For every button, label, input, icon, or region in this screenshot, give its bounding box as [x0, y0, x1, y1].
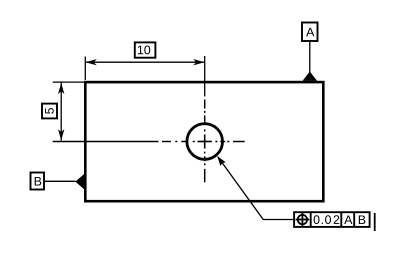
position symbol [296, 213, 310, 226]
dimension line 5 [60, 83, 62, 141]
datum A label frame [302, 23, 318, 42]
value 10 [138, 46, 150, 55]
datum A letter [306, 28, 314, 37]
extension line from hole center left for dimension 5 [53, 141, 159, 143]
vertical centerline dash below [204, 169, 206, 182]
horizontal centerline dash crossing right of hole [220, 141, 225, 143]
datum B feature triangle [75, 174, 84, 190]
part outline [85, 82, 323, 201]
dimension line 10 [85, 61, 204, 63]
center cross vertical bar [204, 135, 206, 149]
horizontal centerline dot inside hole left [193, 141, 195, 143]
extension line from hole center up for dimension 10 [204, 56, 206, 96]
vertical centerline dash crossing bottom of hole [204, 156, 206, 161]
vertical centerline dot above [204, 111, 206, 113]
datum B label frame [31, 173, 45, 190]
value 5 (rotated) [45, 108, 54, 114]
extension line above left edge for dimension 10 [84, 57, 86, 81]
horizontal centerline dot right [227, 141, 229, 143]
horizontal centerline dash crossing left of hole [181, 141, 187, 143]
text cursor bar [374, 213, 376, 231]
datum reference letter B [359, 215, 366, 224]
horizontal centerline dash right [233, 141, 245, 143]
arrowhead top of dimension 5 [58, 83, 64, 94]
basic dimension frame 10 [135, 42, 156, 57]
center cross horizontal bar [198, 141, 212, 143]
datum reference letter A [344, 215, 352, 224]
horizontal centerline dot inside hole right [215, 141, 217, 143]
vertical centerline dash above [204, 100, 206, 109]
datum A feature triangle [303, 72, 318, 81]
datum B leader [44, 180, 76, 182]
datum A leader [309, 41, 311, 73]
vertical centerline dot inside hole bottom [204, 152, 206, 154]
horizontal centerline dot left [175, 141, 177, 143]
vertical centerline dash crossing top of hole [204, 116, 206, 125]
leader line to feature control frame [218, 157, 294, 220]
datum B letter [35, 177, 42, 186]
arrowhead right of dimension 10 [193, 59, 204, 65]
extension line left of top edge for dimension 5 [53, 81, 84, 83]
vertical centerline dot inside hole top [204, 129, 206, 131]
feature control frame [294, 212, 370, 227]
arrowhead bottom of dimension 5 [58, 129, 64, 140]
leader arrowhead at hole [217, 156, 226, 166]
basic dimension frame 5 [42, 104, 57, 119]
horizontal centerline dash left [162, 141, 171, 143]
tolerance value 0.02 [314, 215, 340, 224]
vertical centerline dot below [204, 163, 206, 165]
hole [187, 124, 223, 160]
arrowhead left of dimension 10 [85, 59, 96, 65]
